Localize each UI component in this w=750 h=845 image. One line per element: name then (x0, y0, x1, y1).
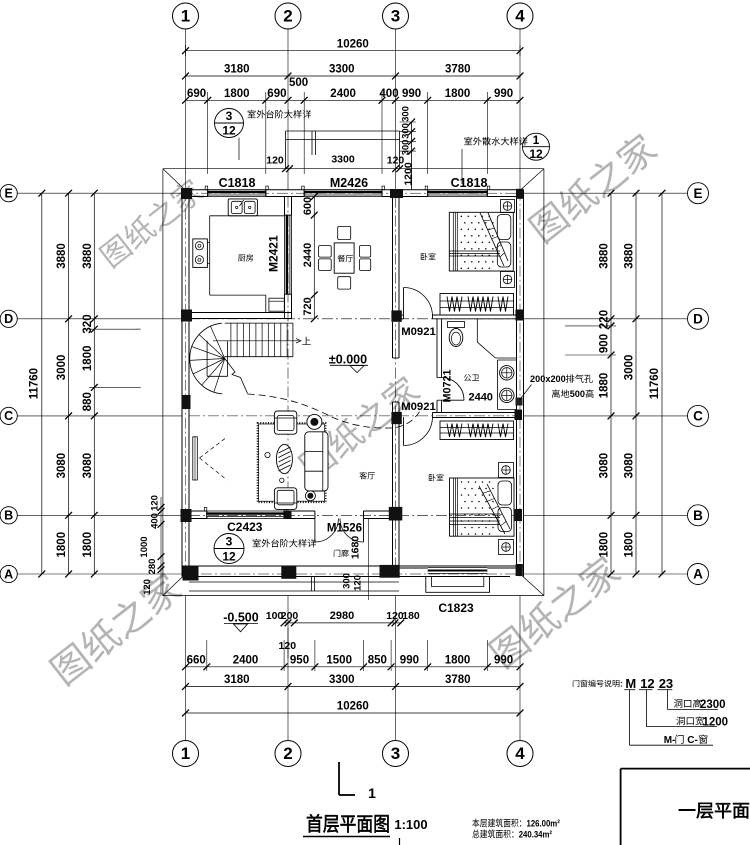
sub dim D-C marks left (135, 328, 141, 330)
small stool (305, 491, 315, 501)
svg-text:3000: 3000 (56, 355, 68, 381)
svg-text:3080: 3080 (82, 453, 94, 479)
svg-text:990: 990 (494, 88, 513, 100)
axis line grid4 (519, 190, 521, 577)
svg-text:3: 3 (226, 109, 233, 123)
svg-text:D: D (693, 311, 703, 326)
svg-text:300: 300 (401, 106, 412, 122)
wall segment (266, 189, 304, 191)
svg-text:200: 200 (281, 610, 299, 622)
svg-text:1200: 1200 (403, 162, 415, 186)
detail ref 3/12 top (215, 109, 244, 138)
axis line D (189, 318, 517, 320)
svg-text:1:100: 1:100 (394, 817, 427, 832)
svg-text:M0921: M0921 (401, 401, 436, 413)
svg-text:3880: 3880 (56, 243, 68, 269)
round side table (307, 414, 322, 429)
window C1823 band (428, 567, 488, 569)
svg-text:1800: 1800 (82, 346, 94, 372)
bottom dim line bays (186, 686, 521, 688)
porch label (334, 549, 349, 556)
svg-text:11760: 11760 (649, 368, 661, 399)
svg-text:M2421: M2421 (267, 235, 281, 272)
svg-text:12: 12 (222, 124, 236, 138)
svg-text:500: 500 (570, 389, 585, 399)
svg-text:1500: 1500 (326, 654, 352, 666)
svg-text:2440: 2440 (302, 243, 314, 267)
left dim line chain (93, 193, 95, 574)
washbasin counter (497, 360, 499, 410)
svg-text:1800: 1800 (599, 532, 611, 558)
svg-text:B: B (4, 509, 13, 523)
svg-text:3880: 3880 (599, 243, 611, 269)
wall segment (284, 510, 315, 512)
svg-text:4: 4 (515, 744, 525, 763)
drawing title (307, 814, 389, 833)
svg-text:990: 990 (400, 654, 419, 666)
svg-text:2400: 2400 (330, 88, 356, 100)
axis line B (189, 514, 517, 516)
section mark near title (338, 762, 340, 795)
vent 200x200 (516, 398, 523, 406)
svg-text:3180: 3180 (224, 64, 250, 76)
grid2 interior wall (284, 197, 286, 216)
porch front wall A (182, 565, 524, 567)
svg-text:4: 4 (515, 7, 525, 26)
dining chairs (338, 226, 351, 239)
svg-text:B: B (693, 508, 703, 523)
svg-text:M0921: M0921 (401, 326, 436, 338)
porch steps (189, 581, 399, 583)
svg-text:1800: 1800 (624, 532, 636, 558)
axis line E (182, 192, 524, 194)
svg-text:12: 12 (640, 676, 654, 691)
svg-text:180: 180 (402, 610, 420, 622)
dining label (338, 255, 353, 262)
svg-text:690: 690 (267, 88, 286, 100)
rug with fringe (259, 424, 325, 501)
svg-text:A: A (4, 567, 13, 581)
svg-text:±0.000: ±0.000 (329, 353, 367, 367)
eave corner diagonals (163, 169, 187, 192)
svg-text:240.34m²: 240.34m² (519, 829, 552, 840)
svg-text:12: 12 (529, 147, 543, 161)
svg-text:280: 280 (147, 559, 158, 575)
svg-text:3180: 3180 (224, 674, 250, 686)
svg-text:850: 850 (368, 654, 387, 666)
svg-text:C1823: C1823 (438, 601, 474, 615)
bottom porch dim line (284, 622, 401, 624)
svg-text:1800: 1800 (82, 532, 94, 558)
right dim line bays (635, 193, 637, 574)
svg-text:1000: 1000 (139, 536, 150, 557)
watermark bottom-right (486, 552, 624, 671)
svg-text:1880: 1880 (599, 373, 611, 399)
svg-text:M: M (625, 676, 636, 691)
svg-text:M1526: M1526 (327, 523, 362, 535)
svg-text:3080: 3080 (624, 453, 636, 479)
svg-text:12: 12 (222, 550, 236, 564)
svg-text:23: 23 (659, 676, 673, 691)
left mini dims 120/400/1000/280/120 (160, 497, 162, 594)
kitchen fridge (269, 298, 284, 311)
sliding door M2421 band (284, 215, 286, 294)
door M0721 bathroom (leaf+arc) (442, 399, 465, 401)
svg-text:10260: 10260 (337, 701, 369, 713)
dining table (334, 243, 354, 273)
svg-text:3: 3 (226, 535, 233, 549)
svg-text:3: 3 (391, 7, 400, 26)
window C1818 top-right (428, 189, 488, 191)
small rug circles (265, 452, 270, 457)
svg-text:300: 300 (401, 140, 412, 156)
coffee table (hatched ellipse) (276, 444, 292, 473)
top dim line chain (186, 99, 521, 101)
bedroom2 wardrobe (440, 421, 514, 440)
svg-text:3: 3 (391, 744, 400, 763)
roof eave outline (163, 168, 544, 170)
svg-text:126.00m²: 126.00m² (527, 818, 560, 829)
svg-text:C1818: C1818 (451, 176, 488, 190)
left dim line total (41, 193, 43, 574)
structural columns (black) (181, 188, 192, 199)
svg-text:M-: M- (664, 735, 676, 746)
watermark center (296, 372, 423, 481)
svg-text:3880: 3880 (624, 243, 636, 269)
right dim line total (661, 193, 663, 574)
svg-text:3000: 3000 (624, 355, 636, 381)
svg-text:720: 720 (302, 297, 314, 315)
living room label (359, 472, 374, 479)
svg-text:11760: 11760 (29, 368, 41, 399)
svg-text:880: 880 (82, 392, 94, 411)
svg-text:3080: 3080 (599, 453, 611, 479)
watermark bottom-left (47, 569, 185, 688)
svg-text:M0721: M0721 (442, 369, 454, 402)
title block box (621, 768, 750, 770)
svg-text:500: 500 (289, 77, 308, 89)
bottom dim line chain (186, 666, 521, 668)
kitchen label (238, 254, 253, 261)
terrace vertical dims (411, 122, 413, 190)
svg-text:1: 1 (181, 744, 190, 763)
bedroom1 bottom wall D (399, 314, 404, 316)
svg-text:300: 300 (401, 123, 412, 139)
entrance double door M1526 (314, 519, 316, 543)
kitchen bottom wall D (182, 312, 292, 314)
grid3 wall C-A bedroom2 left (392, 424, 394, 566)
left exterior wall (181, 190, 183, 577)
top dim extension lines (207, 92, 209, 174)
svg-text:660: 660 (187, 654, 206, 666)
bedroom2 nightstand bottom with lamp (499, 540, 514, 555)
svg-text:3780: 3780 (445, 64, 471, 76)
axis line A (182, 573, 524, 575)
svg-text:120: 120 (353, 575, 364, 591)
axis line grid2 (287, 197, 289, 512)
svg-text:1: 1 (181, 7, 190, 26)
wall segment (487, 189, 523, 191)
bedroom2 bed (450, 478, 515, 536)
armchair top (274, 411, 296, 434)
svg-text:C-: C- (685, 735, 698, 746)
TV cabinet (193, 437, 198, 480)
right exterior wall (523, 190, 525, 577)
svg-text:3780: 3780 (445, 674, 471, 686)
top dim line bays (186, 75, 521, 77)
svg-text:3300: 3300 (329, 64, 355, 76)
door M0921 bedroom2 (leaf+arc) (403, 417, 405, 446)
svg-text:120: 120 (266, 155, 284, 167)
stair straight flight (225, 322, 293, 324)
bathroom label (464, 374, 479, 381)
svg-text:3880: 3880 (82, 243, 94, 269)
axis line C (189, 415, 517, 417)
bathroom left wall (436, 319, 438, 378)
svg-text:120: 120 (279, 640, 297, 652)
svg-text:1: 1 (368, 785, 376, 801)
door-window M2426 (304, 189, 382, 191)
grid circles left E-A (17, 192, 36, 194)
svg-text:A: A (693, 567, 703, 582)
toilet (448, 322, 465, 328)
svg-text:950: 950 (290, 654, 309, 666)
left dim extension lines (36, 192, 182, 194)
axis line grid3 (395, 197, 397, 567)
bed2 blanket fold (479, 484, 510, 534)
bed1 sheet band (449, 250, 500, 252)
terrace break marks (311, 131, 313, 155)
sofa (305, 432, 328, 491)
svg-text:120: 120 (150, 495, 161, 511)
grid circles right E-A (667, 192, 688, 194)
TV projection dashed lines (200, 437, 228, 458)
svg-text:300: 300 (342, 573, 353, 589)
bed2 sheet bands (450, 513, 501, 515)
bedroom2 label (429, 474, 444, 481)
svg-text:320: 320 (82, 314, 94, 333)
door M0921 bedroom1 (leaf+arc) (403, 288, 405, 316)
bedroom1 label (421, 253, 436, 260)
shower corner (476, 319, 478, 342)
dining vertical dim 600/2440/720 (313, 197, 315, 319)
svg-text:3080: 3080 (56, 453, 68, 479)
up label (302, 337, 311, 345)
watermark top-left (97, 176, 206, 270)
svg-text:2: 2 (283, 744, 292, 763)
top dim line total (186, 50, 521, 52)
bedroom1 nightstand bottom with lamp (501, 272, 515, 288)
detail ref 1/12 top-right (523, 133, 550, 160)
svg-text:2440: 2440 (468, 392, 492, 404)
svg-text:1: 1 (533, 133, 540, 147)
bedroom2 nightstand top with lamp (499, 463, 514, 478)
bedroom1 wardrobe (440, 294, 514, 316)
svg-text:3300: 3300 (331, 154, 355, 166)
svg-text:1680: 1680 (349, 536, 361, 560)
svg-text:D: D (4, 312, 13, 326)
svg-text:C: C (4, 409, 13, 423)
svg-text:1200: 1200 (703, 716, 729, 728)
svg-text:C2423: C2423 (227, 520, 263, 534)
bottom dim extension lines (206, 640, 208, 671)
svg-text:690: 690 (187, 88, 206, 100)
svg-text:2980: 2980 (330, 610, 354, 622)
svg-text:E: E (5, 187, 13, 201)
C wall bathroom/bedroom2 (433, 412, 517, 414)
kitchen stove (193, 239, 208, 268)
svg-text:3300: 3300 (329, 674, 355, 686)
watermark top-right (526, 130, 660, 246)
window C2423 (207, 510, 284, 512)
right dim extension lines (524, 192, 668, 194)
grid2 wall lower stub (284, 294, 286, 312)
axis line grid1 (185, 190, 187, 577)
living room front wall B (182, 510, 207, 512)
kitchen counter (209, 216, 211, 295)
stair direction line with up arrow (213, 340, 299, 342)
stair newel box (206, 341, 208, 377)
svg-text:600: 600 (302, 197, 314, 215)
svg-text:1800: 1800 (224, 88, 250, 100)
stair winders (spiral) (190, 323, 223, 394)
svg-text:990: 990 (402, 88, 421, 100)
bedroom1 bed (449, 212, 513, 271)
left dim line bays (68, 193, 70, 574)
bedroom1 nightstand top with lamp (501, 200, 515, 213)
kitchen sink (228, 199, 257, 216)
area notes (472, 818, 560, 829)
svg-text:220: 220 (599, 310, 611, 329)
svg-text:1800: 1800 (445, 88, 471, 100)
bedroom2 front wall A with C1823 opening (399, 567, 428, 569)
grid circles top 1-4 (185, 29, 187, 190)
svg-text:1800: 1800 (445, 654, 471, 666)
svg-text:200x200: 200x200 (530, 374, 566, 384)
svg-text:E: E (693, 186, 702, 201)
stair break line (225, 359, 248, 394)
svg-text:M2426: M2426 (330, 176, 368, 190)
svg-text:900: 900 (599, 334, 611, 353)
svg-text:990: 990 (494, 654, 513, 666)
wall segment (382, 189, 428, 191)
door window code legend (573, 680, 623, 689)
svg-text:2400: 2400 (233, 654, 259, 666)
armchair bottom (274, 488, 296, 510)
right dim line chain (610, 193, 612, 574)
svg-text:1800: 1800 (56, 532, 68, 558)
svg-text:120: 120 (142, 579, 153, 595)
washbasins (500, 366, 514, 380)
grid3 interior wall E-D (392, 197, 394, 313)
svg-text:C1818: C1818 (219, 176, 256, 190)
svg-text:-0.500: -0.500 (223, 611, 258, 625)
window C1818 top-left (208, 189, 266, 191)
svg-text:2300: 2300 (700, 699, 726, 711)
bottom dim line total (186, 712, 521, 714)
wall segment (364, 510, 400, 512)
top exterior wall E (182, 189, 208, 191)
svg-text:400: 400 (150, 513, 161, 529)
svg-text::: : (620, 680, 623, 689)
dashed flow curve (248, 394, 423, 428)
svg-text:C: C (693, 409, 703, 424)
grid circles bottom 1-4 (185, 596, 187, 741)
bay window C1823 outline (426, 577, 490, 593)
svg-text:2: 2 (283, 7, 292, 26)
svg-text:10260: 10260 (337, 39, 369, 51)
terrace steps top (286, 130, 400, 132)
bed1 blanket fold (480, 213, 508, 266)
detail ref 3/12 bottom (214, 534, 244, 564)
grid3 wall D-C segment (392, 322, 394, 358)
